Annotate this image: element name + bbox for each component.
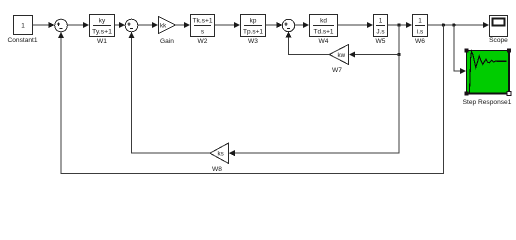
svg-text:Td.s+1: Td.s+1: [314, 29, 334, 36]
transfer-function block W2 (Tk.s+1)/s: [191, 15, 215, 37]
selection handle bottom-right: [507, 91, 511, 95]
selection handle top-right: [507, 48, 511, 52]
svg-text:W8: W8: [212, 166, 222, 173]
svg-text:Ty.s+1: Ty.s+1: [92, 29, 112, 36]
svg-text:1: 1: [418, 17, 422, 24]
wire W8 output to sum S2: [129, 32, 210, 153]
svg-text:kw: kw: [338, 52, 346, 59]
wire W3 to sum S3: [266, 22, 283, 28]
svg-text:Gain: Gain: [160, 38, 174, 45]
sum S1: [55, 19, 68, 32]
wire W7 output to sum S3: [286, 32, 330, 55]
svg-text:i.s: i.s: [417, 29, 423, 36]
svg-text:kk: kk: [160, 22, 167, 29]
wire outer feedback loop W6 output to sum S1: [58, 25, 443, 173]
wire Constant1 to sum S1: [33, 22, 55, 28]
wire W4 to W5: [338, 22, 374, 28]
svg-text:ky: ky: [99, 17, 106, 24]
node A junction dot after W5: [397, 23, 400, 26]
node C junction dot (step response tap): [452, 23, 455, 26]
transfer-function block W5 1/(J.s): [374, 15, 388, 37]
svg-text:Tp.s+1: Tp.s+1: [243, 29, 263, 36]
wire sum S2 to Gain: [138, 22, 158, 28]
scope-display block Step Response1: [464, 48, 511, 95]
svg-text:kp: kp: [250, 17, 257, 24]
step response curve: [470, 52, 507, 93]
svg-text:W1: W1: [97, 38, 107, 45]
svg-text:1: 1: [21, 23, 25, 30]
selection handle bottom-left: [464, 91, 468, 95]
svg-text:kd: kd: [320, 17, 327, 24]
svg-text:1: 1: [379, 17, 383, 24]
svg-text:W5: W5: [376, 38, 386, 45]
transfer-function block W1 ky/(Ty.s+1): [90, 15, 115, 37]
wire W2 to W3: [215, 22, 241, 28]
wire sum S3 to W4: [295, 22, 309, 28]
svg-text:s: s: [201, 29, 204, 36]
svg-text:W6: W6: [415, 38, 425, 45]
gain block W8 (ks): [210, 143, 229, 163]
svg-text:W4: W4: [319, 38, 329, 45]
wire Gain to W2: [176, 22, 191, 28]
svg-text:Tk.s+1: Tk.s+1: [193, 17, 213, 24]
wire node A down to W7 branch: [398, 25, 400, 55]
wire sum S1 to W1: [67, 22, 89, 28]
svg-text:W3: W3: [248, 38, 258, 45]
svg-text:W2: W2: [198, 38, 208, 45]
wire node D to W7 input: [349, 52, 399, 58]
wire step-response branch: [454, 25, 466, 74]
node B junction dot (outer feedback tap): [442, 23, 445, 26]
gain block Gain (kk): [159, 17, 176, 34]
constant block Constant1: [14, 16, 33, 35]
scope block Scope: [490, 16, 508, 37]
svg-text:W7: W7: [332, 67, 342, 74]
transfer-function block W6 1/(i.s): [413, 15, 428, 37]
selection handle top-left: [464, 48, 468, 52]
svg-text:ks: ks: [218, 151, 224, 158]
wire node D down to inner feedback and W8 input: [229, 55, 399, 157]
sum S3: [282, 19, 294, 31]
sum S2: [125, 19, 138, 32]
node D junction dot (W7 tap): [397, 53, 400, 56]
transfer-function block W3 kp/(Tp.s+1): [241, 15, 266, 37]
svg-text:J.s: J.s: [376, 29, 384, 36]
svg-text:Scope: Scope: [489, 37, 508, 44]
wire W6 to Scope: [428, 22, 490, 28]
wire W1 to sum S2: [115, 22, 126, 28]
transfer-function block W4 kd/(Td.s+1): [310, 15, 338, 37]
wire W5 to W6: [388, 22, 413, 28]
svg-text:Constant1: Constant1: [7, 37, 37, 44]
gain block W7 (kw): [329, 45, 348, 65]
svg-text:Step Response1: Step Response1: [463, 99, 512, 106]
